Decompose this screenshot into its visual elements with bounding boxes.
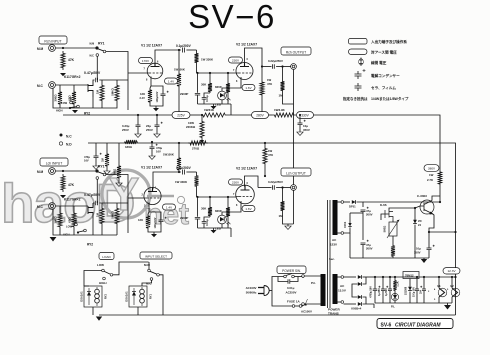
- wire V1 plate up: [155, 50, 181, 63]
- resistor R2 390ohm: [54, 85, 63, 106]
- label 225V: [172, 112, 190, 119]
- svg-text:LOW: LOW: [97, 263, 104, 267]
- svg-text:2.4V: 2.4V: [140, 96, 146, 100]
- label 380V: [424, 165, 439, 172]
- svg-text:INPUT SELECT: INPUT SELECT: [145, 254, 167, 258]
- label Rch OUTPUT box: [281, 47, 311, 55]
- tube V3 Lch 12AX7: [141, 166, 162, 205]
- diode D7 1S1588: [405, 279, 412, 304]
- wire V1 cathode: [150, 77, 152, 87]
- capacitor C8 0.33u/250V: [122, 114, 141, 132]
- regulator 78M12: [403, 272, 419, 279]
- svg-text:56KΩ: 56KΩ: [111, 88, 115, 96]
- svg-text:DSA1A1: DSA1A1: [125, 291, 129, 302]
- resistor R27 30K Lch: [201, 196, 212, 217]
- svg-text:30K: 30K: [201, 207, 207, 211]
- resistor R29 1W47K Lch: [263, 142, 273, 177]
- capacitor C17 0.22u/250V Lch: [258, 180, 291, 190]
- capacitor C15 2900P Lch: [180, 196, 200, 228]
- svg-text:0.01μ: 0.01μ: [287, 286, 295, 290]
- svg-text:230V: 230V: [232, 180, 240, 184]
- svg-text:1.6V: 1.6V: [245, 207, 251, 211]
- transformer LV secondary: [333, 274, 346, 304]
- svg-text:350V: 350V: [414, 251, 421, 255]
- wire R6 to rail: [178, 88, 180, 115]
- wire M.M to RY1 Lch: [56, 170, 97, 172]
- svg-text:1.2K: 1.2K: [396, 281, 400, 287]
- transistor Q2 K117GR x2 Lch: [64, 198, 93, 220]
- wire V2 cathode: [222, 77, 241, 88]
- svg-text:指定なき抵抗は 1/4Wまたは1/8Wタイプ: 指定なき抵抗は 1/4Wまたは1/8Wタイプ: [343, 96, 409, 101]
- diode D3 DF01: [344, 200, 440, 208]
- pin numbers V1: [144, 61, 160, 82]
- ground under C10 C11: [93, 149, 155, 187]
- svg-text:270Ω: 270Ω: [192, 147, 200, 151]
- svg-text:V2 1/2 12AX7: V2 1/2 12AX7: [236, 167, 257, 171]
- ground bus input: [53, 89, 117, 114]
- svg-text:220KΩ: 220KΩ: [186, 125, 196, 129]
- label 1.4V: [165, 78, 178, 84]
- svg-text:560Ω: 560Ω: [383, 225, 387, 232]
- wire 12V rail to label: [0, 0, 1, 1]
- svg-text:330V: 330V: [301, 113, 309, 117]
- capacitor C2 cathode 100u: [151, 86, 169, 102]
- svg-text:0.1μ/200V: 0.1μ/200V: [176, 44, 192, 48]
- ground under cathode: [150, 96, 163, 112]
- transformer primary winding: [302, 274, 326, 306]
- wire cap to R26: [186, 171, 196, 173]
- svg-text:0.22μ/250V: 0.22μ/250V: [268, 180, 283, 184]
- svg-text:Rch INPUT: Rch INPUT: [44, 39, 61, 43]
- svg-text:2900P: 2900P: [180, 92, 188, 96]
- jack J3 Rch output: [291, 64, 297, 70]
- resistor R18 180ohm: [124, 140, 138, 149]
- capacitor C16 0.01u Lch: [202, 217, 210, 228]
- label 230V: [229, 57, 243, 63]
- resistor R21 68ohm Lch: [68, 206, 77, 229]
- svg-text:K117GR×2: K117GR×2: [64, 198, 81, 202]
- resistor R4 1M: [96, 80, 105, 103]
- capacitor C23 1u/35V: [378, 276, 388, 303]
- svg-text:1μ/35V: 1μ/35V: [378, 288, 381, 296]
- resistor R25 cathode 12K Lch: [138, 212, 150, 230]
- capacitor C1 0.47u/50V: [84, 71, 101, 82]
- wire psu ground bus: [350, 233, 429, 263]
- svg-text:CF02: CF02: [343, 221, 347, 228]
- resistor R6 1W100K plate load: [174, 49, 185, 88]
- bridge U05B x4: [344, 275, 374, 310]
- wire cap out to select bus: [99, 79, 128, 81]
- label 1.6V Lch: [242, 206, 255, 212]
- svg-text:Lch OUTPUT: Lch OUTPUT: [286, 171, 306, 175]
- svg-text:1W: 1W: [429, 173, 434, 177]
- svg-text:100μ/16V: 100μ/16V: [154, 217, 157, 228]
- relay contact RY1: [90, 42, 106, 58]
- svg-text:V1 1/2 12AX7: V1 1/2 12AX7: [141, 44, 162, 48]
- resistor VR1 560ohm: [383, 220, 400, 240]
- svg-text:AC100V: AC100V: [246, 286, 257, 290]
- svg-text:AC250V: AC250V: [286, 291, 297, 295]
- svg-text:123V: 123V: [330, 243, 337, 247]
- svg-text:47K: 47K: [267, 82, 272, 86]
- svg-text:LOAD: LOAD: [102, 255, 111, 259]
- svg-text:225V: 225V: [177, 113, 185, 117]
- wire R11 to rail: [261, 97, 263, 115]
- label 1.6V Rch: [242, 85, 255, 91]
- svg-text:DSA1A1: DSA1A1: [80, 291, 84, 302]
- heater V2: [447, 276, 460, 303]
- ground under C7: [297, 125, 303, 136]
- resistor R31 under VR1: [391, 240, 395, 258]
- resistor R12 1M: [279, 65, 285, 97]
- svg-text:104: 104: [420, 289, 423, 294]
- svg-text:HIGH: HIGH: [63, 233, 70, 237]
- wire RY1 pivot to bus Lch: [106, 175, 128, 234]
- svg-text:LOW: LOW: [66, 225, 73, 229]
- svg-text:U05B×4: U05B×4: [351, 307, 362, 311]
- svg-text:0.1μ/200V: 0.1μ/200V: [176, 166, 192, 170]
- ground bus V4 grid: [198, 228, 232, 237]
- resistor R15 10W220K: [186, 114, 204, 143]
- heater V1: [434, 276, 447, 303]
- wire MM contact up: [148, 262, 150, 269]
- svg-text:N.D: N.D: [66, 143, 72, 147]
- capacitor C4 2900P: [180, 72, 200, 104]
- svg-text:N.C: N.C: [66, 135, 72, 139]
- node M.M junction: [62, 47, 64, 49]
- capacitor C24 100u/16V: [414, 276, 423, 303]
- label Rch INPUT box: [39, 36, 67, 44]
- svg-text:セラ、フィルム: セラ、フィルム: [371, 85, 396, 90]
- fuse F1: [272, 291, 303, 308]
- svg-text:線間 電圧: 線間 電圧: [371, 60, 387, 65]
- resistor R11 1W47K: [260, 67, 272, 98]
- resistor R32 1W2.7K: [427, 170, 442, 203]
- wire V3 cathode: [148, 203, 150, 213]
- transformer HV secondary: [330, 200, 344, 247]
- resistor R30 1M Lch: [279, 186, 285, 218]
- svg-text:47K: 47K: [68, 58, 75, 62]
- wire rail1 left: [63, 114, 172, 116]
- svg-text:100μ/16V: 100μ/16V: [156, 91, 159, 102]
- ground relay RY2: [92, 307, 94, 315]
- capacitor C10 470u/16V left: [84, 143, 102, 163]
- label INPUT SELECT box: [140, 252, 172, 259]
- wire grid branch V3: [128, 197, 144, 199]
- svg-text:LED: LED: [215, 227, 222, 231]
- node M.M junction Lch: [62, 170, 64, 172]
- svg-text:350V: 350V: [303, 128, 310, 132]
- resistor R33 1.2K: [393, 276, 399, 292]
- svg-text:24: 24: [418, 223, 421, 227]
- legend rounded box 1: [349, 39, 408, 45]
- capacitor C18 0.01u AC250V: [278, 277, 298, 295]
- wire grid bus V4: [197, 196, 237, 198]
- label 280V: [252, 112, 269, 119]
- watermark haoDY.net: [1, 168, 189, 234]
- svg-text:M.C: M.C: [90, 55, 95, 58]
- ground bus V2 grid: [198, 104, 232, 115]
- transformer Sec label: [329, 257, 335, 261]
- svg-text:230V: 230V: [232, 58, 240, 62]
- ground under R12: [283, 92, 294, 104]
- wire V4 plate to output: [245, 176, 259, 188]
- label 330V: [297, 112, 314, 119]
- svg-text:V2 1/2 12AX7: V2 1/2 12AX7: [236, 43, 257, 47]
- svg-text:250V: 250V: [146, 128, 153, 132]
- jack J4 M.M input Lch: [37, 168, 55, 175]
- capacitor C14 0.1u/200V coupling Lch: [176, 166, 192, 175]
- svg-text:電解コンデンサー: 電解コンデンサー: [371, 73, 400, 78]
- svg-text:170V: 170V: [142, 59, 150, 63]
- wire RY1 MC throw down Lch: [96, 179, 98, 203]
- svg-text:RY1: RY1: [149, 293, 153, 299]
- svg-text:V1 1/2 12AX7: V1 1/2 12AX7: [141, 166, 162, 170]
- svg-text:RY2: RY2: [87, 243, 93, 247]
- resistor R3 68ohm: [68, 85, 77, 106]
- svg-text:1M: 1M: [96, 89, 100, 94]
- svg-text:M.M: M.M: [37, 47, 44, 51]
- svg-text:Sec.: Sec.: [329, 257, 335, 261]
- svg-text:380V: 380V: [428, 166, 436, 170]
- wire LOW to RY2 coil: [84, 271, 102, 287]
- transformer core: [328, 200, 331, 308]
- resistor R17 1M mid: [101, 143, 110, 168]
- wire rail1 mid: [228, 114, 252, 116]
- jack J2 M.C input: [37, 82, 55, 89]
- svg-text:LED: LED: [215, 103, 222, 107]
- wire MC to RY1 coil: [142, 280, 152, 286]
- jack J1 M.M input: [37, 45, 55, 52]
- capacitor C23b 1u/50V: [385, 276, 395, 303]
- svg-text:入出力端子及び操作系: 入出力端子及び操作系: [371, 39, 407, 44]
- ground bus input Lch: [50, 209, 117, 241]
- switch LOAD: [97, 263, 113, 285]
- capacitor C20 47u/200V lower: [361, 240, 373, 258]
- svg-text:50/60Hz: 50/60Hz: [246, 291, 257, 295]
- legend rounded box 2: [349, 49, 398, 55]
- capacitor C25 104: [420, 276, 431, 303]
- svg-text:100μ 16V: 100μ 16V: [414, 287, 416, 297]
- svg-text:0.47μ/50V: 0.47μ/50V: [84, 71, 101, 75]
- label 1.4V Lch: [163, 204, 176, 210]
- heater ground bus: [375, 303, 452, 310]
- wire INPUT pivot to bus: [159, 275, 163, 315]
- svg-text:HIGH: HIGH: [99, 281, 107, 285]
- label 170V: [139, 58, 153, 64]
- transistor Q4 C-3303: [404, 194, 440, 224]
- label POWER SW box: [277, 266, 306, 274]
- pin numbers V3: [142, 187, 158, 208]
- led D1 Rch: [215, 88, 231, 107]
- svg-text:C-3303: C-3303: [417, 194, 427, 198]
- resistor R13 1W34K rail: [190, 108, 228, 117]
- svg-text:M.C: M.C: [37, 84, 44, 88]
- wire V4 cathode: [222, 201, 241, 212]
- wire RY1 MC throw down: [96, 56, 98, 80]
- svg-text:CIRCUIT DIAGRAM: CIRCUIT DIAGRAM: [395, 322, 441, 328]
- svg-text:M.M: M.M: [37, 170, 44, 174]
- svg-text:1S1588: 1S1588: [405, 286, 408, 295]
- svg-text:12.3V: 12.3V: [447, 269, 456, 273]
- svg-text:RY1: RY1: [98, 165, 105, 169]
- svg-text:16V: 16V: [156, 149, 161, 153]
- svg-text:470μ: 470μ: [156, 146, 162, 150]
- ground under R30: [283, 190, 294, 229]
- svg-text:M.M: M.M: [90, 43, 95, 46]
- transistor Q1 K117GR x2: [64, 75, 93, 97]
- svg-text:DF01: DF01: [349, 205, 356, 209]
- svg-text:1W100K: 1W100K: [163, 153, 174, 157]
- svg-text:Lch INPUT: Lch INPUT: [46, 161, 63, 165]
- label Lch OUTPUT box: [281, 168, 311, 176]
- resistor R26 1W330K Lch: [175, 172, 199, 197]
- svg-text:250V: 250V: [122, 128, 129, 132]
- label 230V Lch: [229, 179, 243, 185]
- wire RY1 pivot to bus: [106, 52, 128, 111]
- wire LOAD pivot up: [113, 262, 149, 275]
- svg-text:M.C: M.C: [37, 205, 44, 209]
- svg-text:RY1: RY1: [98, 42, 105, 46]
- label 12.3V: [443, 268, 460, 274]
- svg-text:4700μ/16V: 4700μ/16V: [370, 286, 373, 298]
- resistor R9 30K: [201, 72, 212, 93]
- svg-text:FUSE 1A: FUSE 1A: [287, 300, 301, 304]
- capacitor C5 0.01u: [202, 93, 210, 104]
- svg-text:30K: 30K: [201, 83, 207, 87]
- led D6 pilot: [391, 292, 399, 309]
- capacitor C21 10u/350V reg: [414, 224, 435, 258]
- capacitor C22 4700u/16V: [370, 276, 381, 303]
- svg-text:LOW: LOW: [61, 101, 68, 105]
- wire rail1 right to 380V drop: [314, 115, 441, 170]
- resistor R28 820K Lch: [215, 196, 230, 228]
- svg-text:0.47μ/50V: 0.47μ/50V: [84, 193, 101, 197]
- svg-text:SV−6: SV−6: [188, 0, 276, 35]
- svg-text:12K: 12K: [138, 218, 143, 222]
- resistor R8 1W330K: [195, 50, 214, 73]
- pin numbers V4: [233, 182, 249, 207]
- svg-text:対アース間 電圧: 対アース間 電圧: [370, 50, 397, 55]
- switch power: [272, 274, 303, 291]
- tube V1 Rch 12AX7: [141, 44, 163, 79]
- jack J6 Lch output: [291, 70, 297, 191]
- diode D4 CF02: [343, 213, 363, 233]
- svg-text:ZD: ZD: [418, 219, 422, 223]
- svg-text:POWER SW.: POWER SW.: [282, 269, 301, 273]
- svg-text:SV-6: SV-6: [381, 322, 392, 328]
- capacitor C7 10u/350V: [298, 114, 310, 132]
- svg-text:1W34K: 1W34K: [204, 108, 215, 112]
- capacitor C11 470u/16V: [150, 141, 163, 154]
- wire V1 grid lead: [128, 72, 147, 74]
- svg-text:390Ω: 390Ω: [54, 216, 58, 224]
- wire cap to R8: [186, 49, 196, 51]
- resistor R7 cathode 12K: [140, 86, 153, 104]
- svg-text:470μ: 470μ: [84, 155, 90, 159]
- title SV-6: [188, 0, 276, 35]
- resistor R16 270ohm: [188, 141, 208, 151]
- ground under R19: [60, 195, 66, 198]
- resistor R5 56K: [111, 80, 120, 103]
- relay contact RY2 Lch: [63, 219, 93, 247]
- wire bottom bus: [96, 315, 456, 321]
- svg-text:K117GR×2: K117GR×2: [64, 75, 81, 79]
- jack J5 M.C input Lch: [37, 203, 55, 210]
- svg-text:78M12: 78M12: [405, 274, 414, 278]
- svg-text:13.5V: 13.5V: [338, 289, 346, 293]
- wire V2 plate to output: [245, 48, 263, 67]
- resistor R24 1W100K plate load Lch: [163, 142, 181, 173]
- svg-text:56KΩ: 56KΩ: [111, 211, 115, 219]
- svg-text:P.L: P.L: [391, 305, 395, 309]
- wire grid bus V2: [197, 72, 237, 74]
- svg-text:1W3.9K: 1W3.9K: [274, 108, 286, 112]
- svg-text:1μ/50V: 1μ/50V: [385, 288, 388, 296]
- svg-text:1M: 1M: [96, 212, 100, 217]
- svg-text:12K: 12K: [140, 92, 145, 96]
- svg-text:1.4V: 1.4V: [168, 79, 174, 83]
- resistor R20 390ohm Lch: [54, 206, 63, 229]
- svg-text:1.6V: 1.6V: [245, 86, 251, 90]
- resistor R17b 560ohm: [113, 143, 122, 180]
- legend electrolytic symbol: [355, 69, 401, 79]
- wire V3 plate up: [153, 172, 181, 189]
- svg-text:180Ω: 180Ω: [125, 145, 133, 149]
- svg-text:200V: 200V: [366, 247, 373, 251]
- pin numbers V2: [233, 58, 249, 83]
- relay RY2 coil: [80, 286, 108, 307]
- capacitor C6 0.22u/250V: [261, 59, 291, 69]
- svg-text:HIGH: HIGH: [56, 109, 63, 113]
- ground bus regulator: [343, 232, 345, 234]
- svg-text:AC100V: AC100V: [301, 310, 312, 314]
- ground under R1: [60, 73, 66, 76]
- svg-text:16V: 16V: [84, 159, 89, 163]
- capacitor C3 0.1u/200V coupling: [176, 44, 192, 53]
- wire rail2: [88, 143, 456, 315]
- legend film cap symbol: [355, 83, 397, 91]
- svg-text:K-66: K-66: [380, 203, 387, 207]
- zener D5 24V: [413, 208, 422, 258]
- label AC100V arrow: [301, 299, 312, 314]
- wire cap out to select bus Lch: [99, 202, 128, 204]
- svg-text:0.22μ/250V: 0.22μ/250V: [268, 59, 283, 63]
- svg-text:2.7K: 2.7K: [427, 178, 434, 182]
- legend trimmer symbol: [359, 58, 387, 67]
- legend note: [343, 96, 409, 101]
- svg-text:390Ω: 390Ω: [54, 94, 58, 102]
- wire M.C to FET gate Lch: [56, 205, 89, 207]
- resistor R10 820K: [215, 72, 230, 104]
- capacitor C9 22u/250V: [146, 114, 163, 132]
- label N.C N.D legend: [59, 134, 72, 147]
- resistor R22 1M Lch: [96, 203, 105, 226]
- resistor R23 56K Lch: [111, 203, 120, 226]
- resistor R1 47K: [61, 51, 75, 70]
- svg-text:1W 330K: 1W 330K: [175, 180, 188, 184]
- svg-text:Pri.: Pri.: [311, 281, 316, 285]
- svg-text:Rch OUTPUT: Rch OUTPUT: [286, 50, 306, 54]
- plug AC100V: [246, 286, 272, 296]
- transistor Q3 K-66: [380, 203, 404, 220]
- svg-text:0.01μ: 0.01μ: [206, 219, 209, 226]
- ground under C8 C9: [135, 127, 160, 138]
- ground under cathode Lch: [148, 222, 161, 238]
- resistor R19 47K Lch: [61, 174, 75, 192]
- svg-text:0.01μ: 0.01μ: [206, 95, 209, 102]
- relay contact RY2 low/high: [56, 97, 90, 116]
